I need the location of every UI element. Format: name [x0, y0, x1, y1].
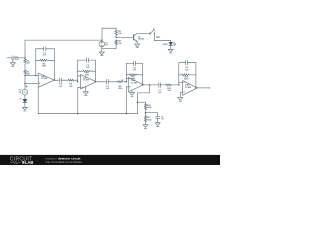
- svg-text:2N3904: 2N3904: [138, 38, 144, 41]
- svg-text:D1: D1: [19, 99, 21, 101]
- svg-text:LED1: LED1: [163, 44, 169, 46]
- svg-text:LAB: LAB: [25, 160, 34, 165]
- svg-text:1uF: 1uF: [161, 118, 164, 120]
- svg-text:http://circuitlab.com/c/29qka: http://circuitlab.com/c/29qka: [45, 160, 82, 164]
